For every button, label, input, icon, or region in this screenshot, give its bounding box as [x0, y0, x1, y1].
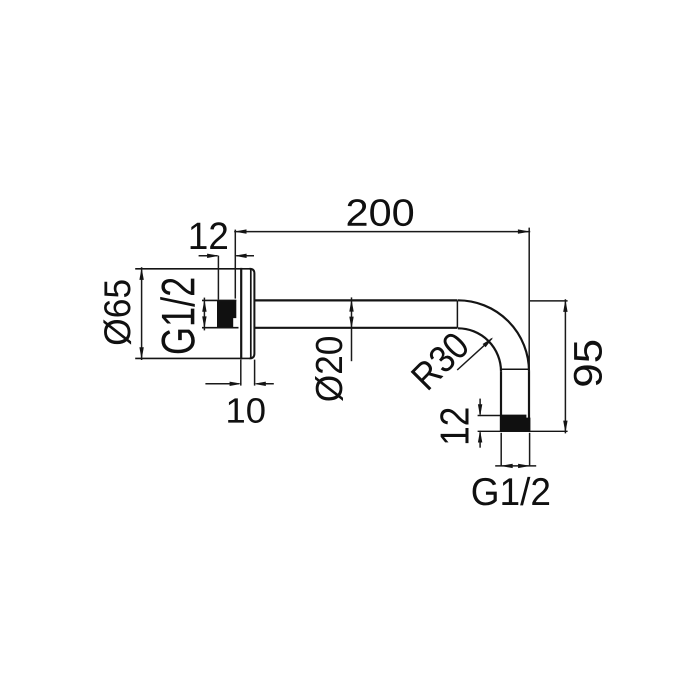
dimension 200 right extension line [528, 228, 530, 372]
vertical tube right edge [528, 371, 530, 431]
bend inner arc R30 [458, 328, 501, 371]
horizontal tube bottom edge [254, 327, 457, 329]
dimension 95 top extension line [530, 300, 568, 302]
dimension 12 wall thread leaders [199, 255, 218, 257]
bend start tangent line [456, 300, 458, 327]
dimension 200 line [234, 231, 530, 233]
label O65 [103, 280, 131, 344]
wall-side thread top edge extension [202, 299, 236, 301]
bend end tangent line [501, 368, 529, 370]
outlet thread bottom edge and 95 extension [478, 430, 568, 432]
dimension G1/2 outlet extension lines [500, 433, 502, 466]
label G1/2 wall thread [160, 279, 195, 354]
outlet thread G1/2 block [500, 415, 531, 432]
dimension 10 leaders [205, 383, 238, 385]
dimension 12 left extension line [217, 256, 219, 300]
wall-side thread G1/2 block [217, 300, 236, 327]
dimension G1/2 wall thread line [203, 298, 205, 331]
dimension O20 line [351, 297, 353, 361]
label 12 top [191, 222, 227, 249]
label 10 [228, 398, 264, 423]
vertical tube left edge [500, 371, 502, 431]
leader R30 [457, 339, 492, 370]
label R30 [410, 330, 470, 390]
dimension 12 outlet thread leaders [479, 399, 481, 415]
wall-side thread bottom edge extension [202, 327, 239, 329]
dimension 10 extension lines [240, 360, 242, 386]
label 12 bottom [440, 408, 468, 443]
dimension G1/2 outlet line [495, 465, 536, 467]
flange bottom edge and O65 bottom extension line [135, 357, 250, 359]
dimension 95 line [564, 299, 566, 433]
dimension 200 left extension line [234, 230, 236, 299]
wall flange (side view) [241, 268, 254, 359]
label G1/2 outlet [473, 477, 550, 506]
horizontal tube top edge [254, 299, 457, 301]
label 95 [574, 341, 602, 386]
label O20 [315, 337, 343, 401]
flange top edge and O65 top extension line [135, 268, 250, 270]
bend outer arc [458, 300, 529, 371]
label 200 [348, 199, 413, 226]
outlet thread top edge and 12 extension [478, 415, 501, 417]
dimension O65 line [141, 267, 143, 360]
